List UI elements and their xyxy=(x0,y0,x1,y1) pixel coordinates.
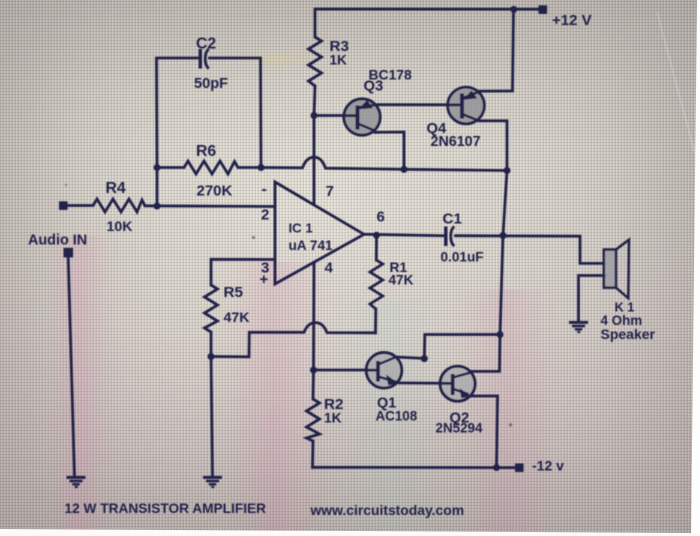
svg-text:1K: 1K xyxy=(330,53,348,68)
wire node C down to Q2 collector xyxy=(472,335,501,372)
wire +12V rail xyxy=(315,9,539,37)
svg-text:uA 741: uA 741 xyxy=(289,238,334,253)
wire Q4 emitter to +12V rail xyxy=(479,9,514,91)
transistor Q2 2N5294 xyxy=(440,366,475,401)
svg-text:+12 V: +12 V xyxy=(552,12,592,29)
speaker K1 4 Ohm xyxy=(604,240,629,299)
resistor R4 10K xyxy=(93,199,145,212)
svg-text:R4: R4 xyxy=(106,180,126,197)
svg-text:-12 v: -12 v xyxy=(532,457,564,473)
svg-text:1K: 1K xyxy=(324,411,342,426)
wire node E to R2 xyxy=(312,370,315,399)
pink moire band left xyxy=(46,236,122,536)
wire op-amp pin 7 riser xyxy=(313,116,316,203)
terminal R4 input xyxy=(59,201,68,210)
svg-text:47K: 47K xyxy=(389,273,414,288)
wire C1 right to speaker corner xyxy=(456,236,605,264)
svg-text:C2: C2 xyxy=(196,35,216,52)
svg-text:10K: 10K xyxy=(107,219,134,235)
node A R3/Q3 base/pin7 xyxy=(311,112,318,119)
transistor Q3 BC178 xyxy=(344,99,380,135)
wire node D to ground xyxy=(211,357,213,478)
wire -12V bottom rail xyxy=(313,466,516,469)
transistor Q4 2N6107 xyxy=(448,87,485,124)
wire node F up and over to node C xyxy=(424,335,500,359)
photo speck near R4 xyxy=(65,184,67,186)
resistor R1 47K xyxy=(370,260,383,309)
wire Q2 emitter to -12V rail xyxy=(470,396,498,468)
svg-text:47K: 47K xyxy=(224,310,251,326)
svg-text:12 W TRANSISTOR AMPLIFIER: 12 W TRANSISTOR AMPLIFIER xyxy=(65,501,267,516)
wire R4 to op-amp pin 2 xyxy=(145,204,275,207)
transistor Q1 AC108 xyxy=(366,353,402,389)
node pin2/feedback xyxy=(154,203,161,210)
wire R2 bottom xyxy=(311,441,314,467)
node F Q1 collector xyxy=(421,355,428,362)
svg-text:2N5294: 2N5294 xyxy=(436,421,483,436)
svg-text:7: 7 xyxy=(326,183,334,200)
wire speaker return to ground xyxy=(579,276,606,323)
crease artifact top-right xyxy=(656,12,700,179)
node output/right bus xyxy=(500,232,507,239)
wire Q1 collector to node F xyxy=(397,357,425,358)
wire Q1 base xyxy=(314,369,375,372)
pink moire band right xyxy=(455,290,560,536)
node E Q1 base xyxy=(310,367,317,374)
node R6 left xyxy=(154,164,161,171)
pink moire band mid xyxy=(228,262,328,536)
node output pin6 xyxy=(373,232,380,239)
terminal Audio IN xyxy=(64,248,74,258)
svg-text:0.01uF: 0.01uF xyxy=(441,250,484,265)
wire C2 box right side xyxy=(210,58,262,168)
node rail-Q4 junction xyxy=(510,6,517,13)
op-amp U1 uA741 triangle xyxy=(275,182,364,284)
svg-text:Q3: Q3 xyxy=(364,79,384,95)
cyan moire band xyxy=(335,300,445,536)
svg-text:2N6107: 2N6107 xyxy=(431,134,481,150)
svg-text:+: + xyxy=(260,271,269,288)
capacitor C1 0.01uF plates xyxy=(444,227,447,247)
yellow discoloration streak xyxy=(228,49,318,69)
wire input terminal to R4 xyxy=(67,204,93,207)
capacitor C2 50pF plates xyxy=(199,49,202,69)
svg-text:www.circuitstoday.com: www.circuitstoday.com xyxy=(310,502,465,518)
svg-text:2: 2 xyxy=(261,207,269,224)
svg-text:6: 6 xyxy=(377,209,385,226)
wire Q4 collector drop xyxy=(479,121,507,171)
svg-text:Speaker: Speaker xyxy=(601,326,656,342)
photo speck near pin 3 xyxy=(252,236,255,239)
resistor R6 270K xyxy=(184,161,238,174)
resistor R5 47K xyxy=(205,285,218,332)
svg-text:Audio IN: Audio IN xyxy=(28,233,87,249)
wire feedback net: R6 right to Q4 collector node with hop over pin7 riser xyxy=(261,157,507,170)
svg-text:-: - xyxy=(262,181,267,198)
wire R6 right stub xyxy=(238,166,261,169)
svg-text:IC 1: IC 1 xyxy=(289,221,313,236)
photo speck near Q2 xyxy=(509,423,512,426)
resistor R2 1K xyxy=(307,399,320,441)
svg-text:270K: 270K xyxy=(197,183,233,200)
svg-text:R5: R5 xyxy=(224,284,244,301)
wire Q3 collector drop xyxy=(375,132,404,170)
wire Audio IN down to ground xyxy=(68,258,74,478)
wire C2 box left side xyxy=(157,58,198,168)
wire R1 bottom riser xyxy=(374,309,377,333)
node Q3 collector junction xyxy=(401,166,408,173)
svg-text:4: 4 xyxy=(325,260,334,277)
node R6 right xyxy=(258,164,265,171)
wire inverting input node drop xyxy=(156,168,159,207)
svg-text:C1: C1 xyxy=(443,211,463,228)
wire right bus: node B down through output node to node C xyxy=(500,171,507,335)
terminal -12V xyxy=(515,463,524,472)
terminal +12V xyxy=(539,5,548,14)
wire R1 top to output node xyxy=(375,235,378,260)
wire Q3 emitter to Q4 base xyxy=(376,103,463,106)
svg-text:50pF: 50pF xyxy=(194,76,228,92)
node B Q4 collector junction xyxy=(504,167,511,174)
ground R5 xyxy=(203,477,222,487)
wire Q3 base xyxy=(314,114,355,117)
wire node D to R1 bottom with hop over pin4 riser xyxy=(211,323,376,357)
svg-text:AC108: AC108 xyxy=(376,409,418,424)
ground input xyxy=(67,477,86,487)
node D R5 bottom xyxy=(208,353,215,360)
wire Q1 emitter to Q2 base xyxy=(398,381,449,384)
svg-text:R6: R6 xyxy=(196,143,216,160)
node C Q2 collector xyxy=(497,331,504,338)
resistor R3 1K xyxy=(309,37,322,86)
wire op-amp pin 3 to R5 xyxy=(211,259,275,285)
wire R5 bottom to node D xyxy=(210,332,213,357)
node -12V rail junction xyxy=(493,464,500,471)
wire op-amp output xyxy=(364,234,444,235)
wire op-amp pin 4 riser xyxy=(312,263,315,370)
wire R3 bottom to node A xyxy=(314,86,315,116)
warm tint wash lower half xyxy=(0,180,700,536)
ground speaker xyxy=(569,322,588,332)
wire R6 left stub xyxy=(157,166,184,169)
